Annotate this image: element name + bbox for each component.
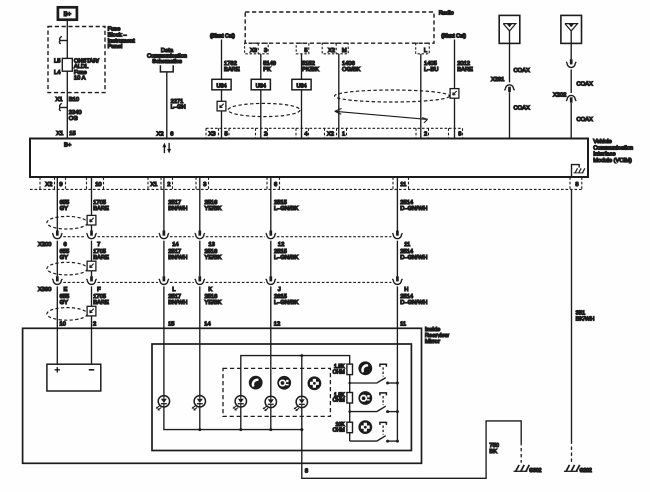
svg-text:B+: B+ — [64, 12, 72, 18]
terminal hook in fuse block — [60, 40, 67, 42]
connector X390 terminal col 6 — [396, 276, 399, 281]
svg-text:10: 10 — [95, 182, 101, 188]
svg-text:US4: US4 — [296, 83, 306, 89]
svg-text:X1: X1 — [150, 182, 157, 188]
svg-text:BN/WH: BN/WH — [168, 206, 187, 212]
LED3 — [235, 396, 246, 407]
svg-text:COAX: COAX — [514, 105, 530, 111]
button icon OnStar (cluster) — [277, 376, 291, 390]
LED cathode bus — [164, 407, 302, 430]
bottom pin box edge x570 — [569, 177, 571, 189]
svg-text:1: 1 — [342, 131, 345, 137]
svg-text:BARE: BARE — [93, 255, 109, 261]
svg-text:Interface: Interface — [593, 152, 615, 158]
X200 connector dashed rail — [63, 236, 391, 238]
LED4 — [265, 396, 276, 407]
shield termination on 1782 BARE — [217, 101, 226, 111]
junction dot pin8 bus — [300, 428, 303, 431]
svg-text:GY: GY — [60, 300, 68, 306]
svg-text:BK/WH: BK/WH — [576, 316, 595, 322]
terminal hook below fuse block — [60, 107, 67, 109]
svg-text:F: F — [97, 287, 101, 293]
wire 2516 YE/BK segment X390 to mirror — [199, 286, 201, 328]
VCIM internal case ground — [572, 165, 580, 177]
radio pin L — [416, 43, 430, 54]
svg-text:Panel: Panel — [108, 44, 123, 50]
pin box edge x462.5 — [462, 128, 464, 138]
svg-text:L–GN/BK: L–GN/BK — [274, 206, 298, 212]
bottom pin box edge x103.5 — [103, 177, 105, 189]
shield termination on 1705 BARE — [87, 261, 96, 271]
svg-text:L: L — [172, 287, 175, 293]
svg-text:Vehicle: Vehicle — [593, 139, 612, 145]
pin box edge x336.5 — [336, 128, 338, 138]
svg-text:L–GN/BK: L–GN/BK — [274, 255, 298, 261]
VCIM serial data arrows — [163, 146, 165, 153]
wire 2514 D-GN/WH segment X390 to mirror — [396, 286, 398, 328]
splice pack US4 on wire 260.8 — [251, 79, 270, 90]
bottom pin box edge x161 — [160, 177, 162, 189]
wire 2515 L-GN/BK segment VCIM to X200 — [270, 177, 272, 230]
svg-text:OHM: OHM — [333, 427, 345, 433]
svg-text:X2: X2 — [327, 131, 334, 137]
svg-text:L: L — [424, 48, 427, 54]
wire 1705 BARE segment VCIM to X200 — [91, 177, 93, 230]
connector X202 — [566, 95, 576, 101]
svg-text:11: 11 — [404, 242, 410, 248]
wire 5149 PK — [260, 54, 262, 138]
bottom pin box edge x196 — [195, 177, 197, 189]
wire 2515 L-GN/BK segment X390 to mirror — [270, 286, 272, 328]
svg-text:K: K — [208, 287, 212, 293]
svg-text:2: 2 — [424, 131, 427, 137]
svg-text:Schematics: Schematics — [152, 59, 182, 65]
switch S1 phone — [376, 378, 385, 384]
svg-text:Mirror: Mirror — [425, 339, 440, 345]
svg-text:6: 6 — [274, 182, 277, 188]
wire 1406 OG/BK — [338, 54, 340, 138]
fuse block dashed box — [48, 27, 105, 93]
connector X390 terminal col 4 — [198, 276, 201, 281]
svg-text:L–GN: L–GN — [171, 105, 186, 111]
internal bus to resistor ladder — [241, 356, 350, 396]
radio pin X3 3 — [245, 43, 269, 54]
antenna 1 — [499, 15, 520, 43]
wire pin14 to LED2 — [199, 328, 201, 395]
svg-text:Inside: Inside — [425, 327, 440, 333]
radio pin 5 — [296, 43, 309, 54]
coax wire antenna1 upper — [509, 43, 511, 82]
power source B+ — [58, 7, 77, 19]
svg-text:COAX: COAX — [514, 68, 530, 74]
svg-text:4: 4 — [304, 131, 308, 137]
wire 2271 L-GN — [166, 72, 168, 138]
ladder segment R3-tap3 — [349, 433, 351, 441]
button icon phone (cluster) — [249, 376, 263, 390]
LED2 drop — [199, 407, 201, 430]
plus terminal — [55, 367, 60, 372]
svg-text:E: E — [64, 287, 68, 293]
svg-text:B+: B+ — [64, 143, 72, 149]
wire 2517 BN/WH segment X200 to X390 — [163, 241, 165, 277]
pin box edge x218.5 — [218, 128, 220, 138]
svg-text:H: H — [404, 287, 408, 293]
button icon cross (switch) — [358, 420, 372, 434]
svg-text:G302: G302 — [529, 468, 541, 474]
off-page bracket — [160, 65, 173, 72]
svg-text:Radio: Radio — [439, 11, 454, 17]
shield ellipse cols 1-2 — [47, 262, 87, 275]
coax wire antenna2 middle — [570, 69, 572, 93]
svg-text:B10: B10 — [69, 97, 79, 103]
wire 351 BK/WH — [571, 189, 573, 440]
drain wire arrow — [335, 111, 428, 119]
svg-text:BARE: BARE — [224, 67, 240, 73]
wire 655 GY segment X200 to X390 — [56, 241, 58, 277]
wire 655 GY segment VCIM to X200 — [56, 177, 58, 230]
bottom pin box edge x208.5 — [208, 177, 210, 189]
connector X390 terminal col 3 — [163, 276, 166, 281]
radio pin X2 M — [322, 43, 348, 54]
svg-text:Rearview: Rearview — [425, 333, 450, 339]
wire 1705 BARE segment X390 to mirror — [91, 286, 93, 328]
svg-text:Module (VCIM): Module (VCIM) — [593, 158, 632, 164]
wire 1705 BARE segment X200 to X390 — [91, 241, 93, 277]
svg-text:OHM: OHM — [333, 369, 345, 375]
svg-text:BN/WH: BN/WH — [168, 255, 187, 261]
switch S2 OnStar — [376, 406, 385, 412]
pin box edge x448.5 — [448, 128, 450, 138]
svg-text:14: 14 — [172, 242, 179, 248]
svg-text:6: 6 — [64, 242, 67, 248]
svg-text:2: 2 — [93, 322, 96, 328]
svg-text:D–GN/WH: D–GN/WH — [400, 255, 427, 261]
svg-text:2: 2 — [264, 131, 267, 137]
svg-text:X1: X1 — [56, 97, 63, 103]
resistor R1 1.5K — [347, 364, 353, 375]
connector X200 terminal col 5 — [269, 231, 272, 236]
pin box edge x229 — [228, 128, 230, 138]
button icon OnStar (switch) — [358, 391, 372, 405]
junction dot switch bus y411.6 — [396, 410, 399, 413]
LED5 — [296, 396, 307, 407]
svg-text:D–GN/WH: D–GN/WH — [400, 300, 427, 306]
wire 1782 BARE — [221, 40, 223, 138]
pin box edge x206 — [205, 128, 207, 138]
svg-text:D–GN/WH: D–GN/WH — [400, 206, 427, 212]
svg-text:(Blunt Cut): (Blunt Cut) — [210, 34, 235, 40]
wire dashed drop to G302 — [520, 442, 522, 463]
junction dot bus x301.8 — [300, 428, 303, 431]
svg-text:8: 8 — [305, 469, 308, 475]
svg-text:X291: X291 — [491, 77, 504, 83]
svg-text:X2: X2 — [157, 131, 164, 137]
junction dot switch bus y383.0 — [396, 382, 399, 385]
connector X390 terminal col 2 — [90, 276, 93, 281]
LED3 drop — [240, 407, 242, 430]
svg-text:US4: US4 — [216, 83, 226, 89]
VCIM top pin dashed rail — [206, 127, 463, 129]
svg-text:L–BU: L–BU — [424, 67, 438, 73]
svg-text:YE/BK: YE/BK — [205, 206, 222, 212]
wire bus to LED5 — [301, 356, 303, 397]
bottom pin box edge x86.5 — [86, 177, 88, 189]
svg-text:YE/BK: YE/BK — [205, 255, 222, 261]
LED1 — [158, 396, 169, 407]
svg-text:14: 14 — [204, 322, 211, 328]
svg-text:11: 11 — [400, 182, 406, 188]
wire 2012 BARE — [454, 40, 456, 138]
svg-text:BARE: BARE — [457, 67, 473, 73]
bottom pin box edge x65.5 — [65, 177, 67, 189]
wire pin15 to LED1 — [163, 328, 165, 395]
pin box edge x267.5 — [267, 128, 269, 138]
svg-text:X2: X2 — [328, 48, 335, 54]
connector X200 terminal col 1 — [56, 231, 59, 236]
bottom pin box edge x581.8 — [581, 177, 583, 189]
pin box edge x255.5 — [255, 128, 257, 138]
twisted/shield ellipse left — [228, 103, 300, 116]
coax wire antenna1 lower — [509, 92, 511, 138]
svg-text:3: 3 — [203, 182, 206, 188]
svg-text:L4: L4 — [54, 70, 61, 76]
svg-text:L5: L5 — [54, 59, 60, 65]
VCIM bottom pin dashed rail — [30, 188, 582, 190]
tap wire to switch 3 — [350, 440, 377, 442]
svg-text:BK: BK — [489, 449, 497, 455]
coax wire antenna2 lower — [570, 103, 572, 138]
wire 2514 D-GN/WH segment X200 to X390 — [396, 241, 398, 277]
svg-text:10: 10 — [59, 322, 65, 328]
junction dot LED5 branch — [300, 354, 303, 357]
svg-text:M: M — [342, 48, 347, 54]
wire pin12 to LED4 — [270, 328, 272, 396]
svg-text:9: 9 — [59, 182, 62, 188]
resistor R3 10K — [347, 422, 353, 433]
svg-text:X390: X390 — [38, 287, 51, 293]
wire pin11 to switch bus — [396, 328, 398, 441]
svg-text:15: 15 — [69, 131, 75, 137]
svg-text:3: 3 — [264, 48, 267, 54]
tap wire to switch 2 — [350, 411, 377, 413]
svg-text:BARE: BARE — [93, 300, 109, 306]
wire B+ feed 67 — [66, 20, 68, 138]
svg-text:BARE: BARE — [93, 206, 109, 212]
bottom pin box edge x54.5 — [54, 177, 56, 189]
svg-text:PK: PK — [263, 67, 271, 73]
connector X200 terminal col 3 — [163, 231, 166, 236]
wire 2516 YE/BK segment VCIM to X200 — [199, 177, 201, 230]
svg-text:X200: X200 — [38, 242, 51, 248]
twisted/shield ellipse right — [335, 90, 450, 102]
svg-text:X2: X2 — [45, 182, 52, 188]
shield termination on 2012 BARE — [450, 89, 459, 99]
wire 2517 BN/WH segment X390 to mirror — [163, 286, 165, 328]
pin box edge x296 — [295, 128, 297, 138]
wire 5152 PK/BK — [301, 54, 303, 138]
svg-text:X202: X202 — [553, 93, 566, 99]
tap wire to switch 1 — [350, 382, 377, 384]
svg-text:COAX: COAX — [577, 117, 593, 123]
LED2 — [194, 396, 205, 407]
pin box edge x308.5 — [308, 128, 310, 138]
junction dot bus x240.8 — [239, 428, 242, 431]
svg-text:US4: US4 — [256, 83, 266, 89]
dashed button cluster box — [223, 368, 330, 416]
LED4 drop — [270, 408, 272, 430]
pin box edge x324.5 — [324, 128, 326, 138]
X390 connector dashed rail — [63, 281, 391, 283]
minus terminal — [89, 369, 94, 371]
fuse ONSTAR/ALDL 10A — [62, 58, 72, 71]
junction dot bus x199.8 — [198, 428, 201, 431]
svg-text:YE/BK: YE/BK — [205, 300, 222, 306]
bottom pin box edge x408.5 — [408, 177, 410, 189]
svg-text:8: 8 — [458, 131, 461, 137]
svg-text:BN/WH: BN/WH — [168, 300, 187, 306]
wire 1405 L-BU — [420, 54, 422, 138]
bottom pin box edge x40 — [39, 177, 41, 189]
svg-text:Communication: Communication — [593, 145, 633, 151]
wire mirror pin 8 output — [302, 408, 521, 479]
pin box edge x416 — [415, 128, 417, 138]
coax wire antenna2 upper — [570, 43, 572, 59]
svg-text:12: 12 — [274, 322, 280, 328]
mirror inner assembly box — [152, 344, 411, 451]
connector X390 terminal col 1 — [56, 276, 59, 281]
bottom pin box edge x267 — [266, 177, 268, 189]
splice pack US4 on wire 301.5 — [292, 79, 311, 90]
junction dot bus x270.8 — [269, 428, 272, 431]
connector X200 terminal col 6 — [396, 231, 399, 236]
VCIM module U1 — [30, 139, 588, 178]
svg-text:X3: X3 — [250, 48, 257, 54]
bottom pin box edge x148 — [147, 177, 149, 189]
inside rearview mirror box — [23, 328, 422, 463]
bottom pin box edge x279.5 — [279, 177, 281, 189]
junction dot switch bus y441.1 — [396, 440, 399, 443]
svg-text:15: 15 — [168, 322, 174, 328]
wire 2514 D-GN/WH segment VCIM to X200 — [396, 177, 398, 230]
svg-text:L–GN/BK: L–GN/BK — [274, 300, 298, 306]
svg-text:X3: X3 — [209, 131, 216, 137]
ground G202 — [564, 470, 578, 472]
svg-text:COAX: COAX — [577, 82, 593, 88]
svg-text:7: 7 — [97, 242, 100, 248]
connector X200 terminal col 2 — [90, 231, 93, 236]
button icon phone (switch) — [358, 361, 372, 375]
ladder segment R2-R3 — [349, 403, 351, 422]
svg-text:J: J — [278, 287, 281, 293]
shield termination on 1705 BARE — [87, 306, 96, 316]
wire pin2 to microphone - — [91, 328, 93, 364]
resistor R2 1.5K — [347, 393, 353, 404]
wire pin10 to microphone + — [56, 328, 58, 364]
wire 2516 YE/BK segment X200 to X390 — [199, 241, 201, 277]
svg-text:GY: GY — [60, 255, 68, 261]
bottom pin box edge x172.5 — [172, 177, 174, 189]
shield ellipse cols 1-2 — [47, 308, 87, 321]
svg-text:6: 6 — [170, 131, 173, 137]
svg-text:12: 12 — [278, 242, 284, 248]
svg-text:(Blunt Cut): (Blunt Cut) — [441, 34, 466, 40]
svg-text:OG/BK: OG/BK — [342, 67, 360, 73]
radio dashed box — [245, 12, 434, 43]
ladder segment R1-R2 — [349, 375, 351, 393]
shield termination on 1705 BARE — [87, 215, 96, 225]
svg-text:G202: G202 — [580, 468, 592, 474]
microphone box — [47, 364, 101, 391]
ground G302 — [514, 470, 528, 472]
wire 2515 L-GN/BK segment X200 to X390 — [270, 241, 272, 277]
svg-text:5: 5 — [225, 131, 228, 137]
connector X291 — [504, 85, 514, 90]
button icon cross (cluster) — [308, 376, 322, 390]
svg-text:5: 5 — [304, 48, 307, 54]
svg-text:11: 11 — [400, 322, 406, 328]
switch S3 emergency — [376, 436, 385, 442]
wire 655 GY segment X390 to mirror — [56, 286, 58, 328]
connector X200 terminal col 4 — [198, 231, 201, 236]
connector X390 terminal col 5 — [269, 276, 272, 281]
svg-text:8: 8 — [575, 182, 578, 188]
connector antenna2 inline — [570, 59, 573, 64]
pin box edge x428.5 — [428, 128, 430, 138]
shield ellipse cols 1-2 — [47, 216, 87, 229]
svg-text:10 A: 10 A — [74, 76, 86, 82]
svg-text:OG: OG — [69, 116, 78, 122]
splice pack US4 on wire 221.5 — [212, 79, 231, 90]
bottom pin box edge x393 — [392, 177, 394, 189]
antenna 2 — [561, 15, 582, 43]
pin box edge x346.5 — [346, 128, 348, 138]
svg-text:13: 13 — [208, 242, 214, 248]
svg-text:PK/BK: PK/BK — [302, 67, 319, 73]
wire dashed drop to G202 — [571, 441, 573, 463]
svg-text:2: 2 — [167, 182, 170, 188]
svg-text:GY: GY — [60, 206, 68, 212]
wire 2517 BN/WH segment VCIM to X200 — [163, 177, 165, 230]
svg-text:OHM: OHM — [333, 398, 345, 404]
svg-text:X1: X1 — [56, 131, 63, 137]
